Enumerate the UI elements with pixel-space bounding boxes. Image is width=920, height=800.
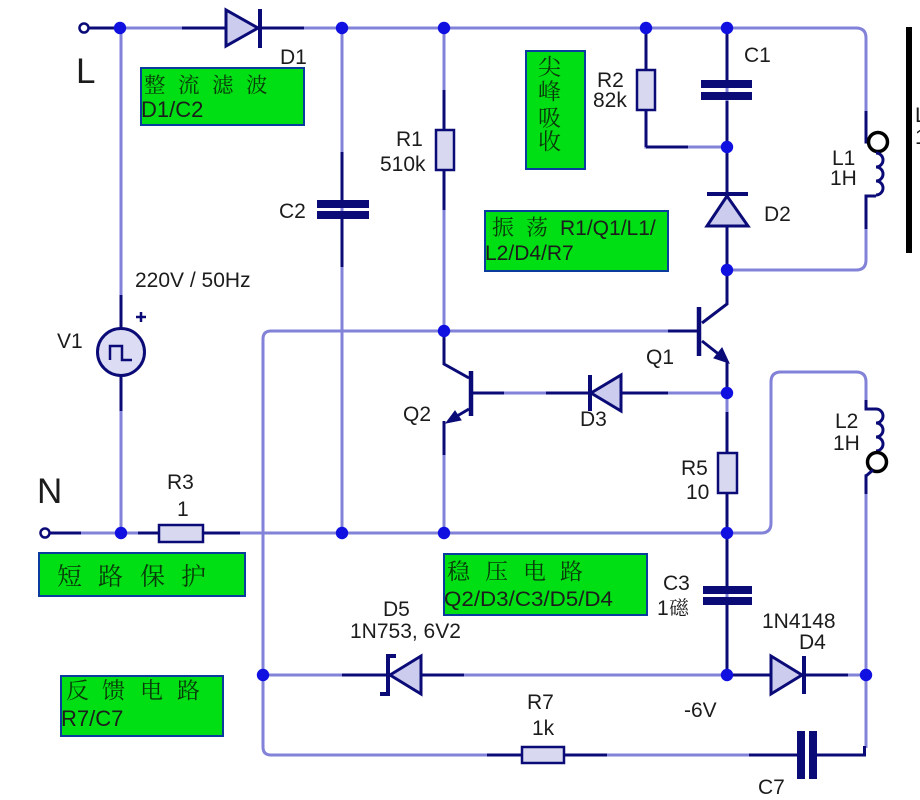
svg-text:1: 1	[657, 597, 669, 620]
terminal L	[80, 24, 119, 33]
resistor R5	[718, 412, 737, 530]
svg-text:R7: R7	[527, 691, 554, 714]
svg-text:V1: V1	[57, 330, 83, 353]
wire R2 branch	[646, 28, 727, 147]
svg-text:L2/D4/R7: L2/D4/R7	[485, 242, 574, 265]
svg-text:1H: 1H	[830, 167, 857, 190]
svg-text:Q1: Q1	[646, 346, 674, 369]
svg-text:C3: C3	[663, 572, 690, 595]
node top bus at C2	[336, 22, 348, 34]
capacitor C1	[701, 34, 752, 145]
transistor Q2	[444, 333, 504, 455]
resistor R7	[487, 747, 607, 763]
wire Q1 base line and left feedback loop to R7/C7	[263, 331, 797, 755]
svg-text:R1/Q1/L1/: R1/Q1/L1/	[560, 217, 656, 240]
svg-text:R1: R1	[396, 128, 423, 151]
node top bus at V1	[114, 22, 126, 34]
svg-text:Q2: Q2	[403, 403, 431, 426]
transformer core bar right edge	[906, 27, 912, 253]
svg-text:510k: 510k	[380, 153, 426, 176]
svg-text:L2: L2	[835, 410, 858, 433]
node R5 / C3 / N bus	[721, 527, 733, 539]
label box: spike absorb 尖峰吸收	[526, 51, 585, 169]
label box: feedback 反馈电路 R7/C7	[61, 676, 223, 736]
svg-text:1H: 1H	[833, 432, 860, 455]
node N bus at V1	[115, 527, 127, 539]
svg-text:L: L	[76, 52, 95, 91]
svg-text:1: 1	[177, 498, 189, 521]
wire N bus and L2 loop	[49, 372, 866, 533]
svg-text:D5: D5	[383, 598, 410, 621]
node top bus at R2	[640, 22, 652, 34]
label box: short-circuit protection 短路保护	[39, 553, 245, 596]
svg-text:1N753, 6V2: 1N753, 6V2	[350, 620, 461, 643]
node N bus at Q2 emitter	[438, 527, 450, 539]
diode D1	[182, 9, 304, 48]
capacitor C2	[317, 152, 369, 267]
svg-text:L: L	[915, 104, 920, 127]
inductor L1	[866, 111, 888, 229]
inductor L2	[866, 400, 887, 494]
wire D3 line y=393	[504, 392, 727, 395]
wire top bus L to right loop down to D2 node	[84, 28, 866, 270]
capacitor C7	[749, 731, 865, 779]
node D2 cathode / L1	[721, 264, 733, 276]
node R1 / Q1 base / Q2 collector	[438, 325, 450, 337]
capacitor C3	[703, 535, 752, 672]
node N bus at C2	[336, 527, 348, 539]
wire C2 branch x=342	[341, 28, 344, 533]
svg-text:10: 10	[686, 481, 709, 504]
resistor R3	[138, 525, 240, 542]
svg-text:C2: C2	[279, 200, 306, 223]
diode D4 1N4148	[731, 656, 848, 694]
node C1/R2 bottom	[721, 141, 733, 153]
svg-text:C1: C1	[744, 44, 771, 67]
svg-text:1N4148: 1N4148	[762, 610, 836, 633]
svg-text:R5: R5	[681, 457, 708, 480]
svg-text:D3: D3	[580, 408, 607, 431]
wire D5-D4 line y=675	[263, 674, 866, 677]
label box: regulator 稳压电路 Q2/D3/C3/D5/D4	[444, 554, 647, 615]
resistor R2	[637, 34, 688, 147]
label box: oscillator 振荡 R1/Q1/L1/L2/D4/R7	[485, 211, 668, 271]
svg-text:D1/C2: D1/C2	[141, 97, 203, 122]
node D4 / L2 / C7	[860, 669, 872, 681]
node top bus at C1	[721, 22, 733, 34]
diode D3	[546, 375, 668, 411]
svg-text:1k: 1k	[532, 717, 555, 740]
svg-text:D2: D2	[764, 203, 791, 226]
svg-text:R7/C7: R7/C7	[61, 706, 123, 731]
zener diode D5 1N753	[342, 656, 464, 694]
svg-text:Q2/D3/C3/D5/D4: Q2/D3/C3/D5/D4	[444, 588, 613, 611]
svg-text:220V / 50Hz: 220V / 50Hz	[135, 269, 251, 292]
wire R1 / Q2 branch x=444	[443, 28, 446, 333]
node top bus at R1	[438, 22, 450, 34]
wire V1 branch x=121	[120, 28, 123, 533]
svg-text:1: 1	[915, 126, 920, 149]
diode D2	[707, 149, 748, 268]
node feedback loop / D5	[257, 669, 269, 681]
wire main C1-D2-Q1-R5-C3 branch x=727	[726, 28, 729, 304]
svg-text:C7: C7	[758, 776, 785, 799]
svg-text:N: N	[37, 472, 62, 511]
label box: rectifier-filter 整流滤波 D1/C2	[141, 68, 304, 125]
svg-text:82k: 82k	[593, 89, 627, 112]
node Q1 emitter / R5	[721, 387, 733, 399]
terminal N	[41, 529, 82, 538]
node C3 / D5 / D4 -6V	[721, 669, 733, 681]
source V1 220V/50Hz	[98, 295, 147, 411]
svg-text:D1: D1	[280, 46, 307, 69]
svg-text:D4: D4	[799, 631, 826, 654]
wire C7 right leg	[865, 675, 868, 748]
svg-text:-6V: -6V	[684, 699, 717, 722]
transistor Q1	[668, 270, 729, 393]
resistor R1	[436, 90, 454, 210]
svg-text:R3: R3	[167, 471, 194, 494]
